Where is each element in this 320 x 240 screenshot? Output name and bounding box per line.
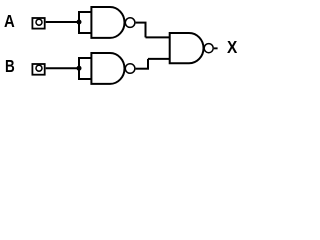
terminal TB outer square bbox=[32, 64, 44, 75]
nand gate U1 body bbox=[91, 7, 124, 38]
wire U1 out horizontal bbox=[136, 22, 147, 24]
wire U2 out horizontal bbox=[136, 68, 149, 70]
nand gate U1 bubble bbox=[125, 18, 135, 28]
wire U2 out to U3 input 2 bbox=[148, 58, 170, 60]
terminal TA inner circle bbox=[36, 19, 42, 25]
wire U2 out vertical jog bbox=[147, 59, 149, 69]
wire A terminal to junction bbox=[46, 21, 79, 23]
wire U1 out to U3 input 1 bbox=[146, 36, 170, 38]
wire U3 output stub bbox=[214, 47, 218, 49]
nand gate U3 bubble bbox=[204, 44, 213, 53]
nand gate U3 body bbox=[170, 33, 204, 63]
wire junction A vertical bus bbox=[78, 12, 80, 33]
label B bbox=[5, 58, 15, 76]
nand gate U2 body bbox=[91, 53, 124, 84]
wire stub to U1 input 1 bbox=[78, 11, 91, 13]
wire U1 out vertical jog bbox=[145, 23, 147, 38]
wire stub to U2 input 2 bbox=[78, 78, 91, 80]
junction node A bbox=[77, 20, 82, 25]
label X bbox=[227, 39, 237, 57]
label A bbox=[4, 13, 15, 31]
wire B terminal to junction bbox=[46, 67, 79, 69]
wire junction B vertical bus bbox=[78, 58, 80, 79]
nand gate U2 bubble bbox=[125, 64, 135, 74]
wire stub to U1 input 2 bbox=[78, 32, 91, 34]
terminal TB inner circle bbox=[36, 65, 42, 71]
terminal TA outer square bbox=[32, 18, 44, 29]
junction node B bbox=[77, 66, 82, 71]
wire stub to U2 input 1 bbox=[78, 57, 91, 59]
